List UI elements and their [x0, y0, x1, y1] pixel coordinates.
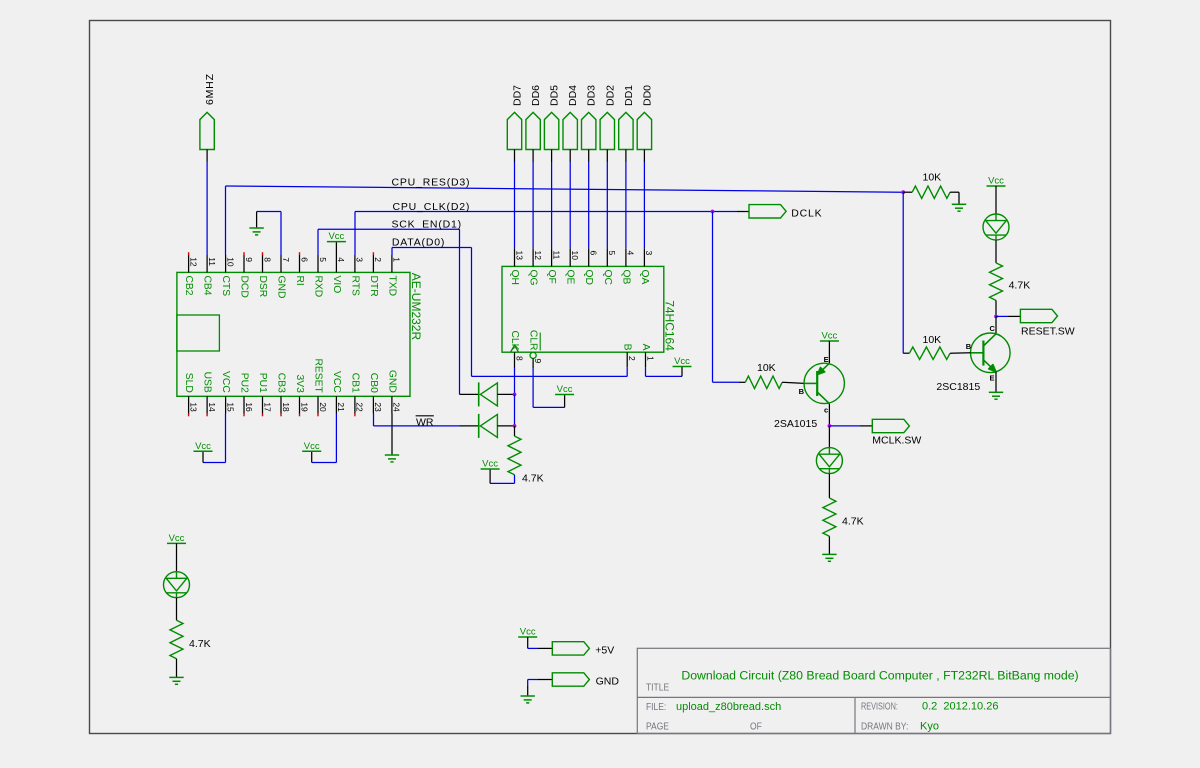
svg-text:4.7K: 4.7K — [189, 638, 211, 650]
svg-text:2: 2 — [373, 257, 383, 262]
svg-text:QC: QC — [602, 270, 613, 286]
svg-text:B: B — [966, 342, 972, 351]
diode D1 (SCK_EN to CLK node) — [479, 382, 498, 406]
svg-text:4.7K: 4.7K — [522, 472, 544, 484]
PAGE / OF labels — [646, 721, 762, 732]
svg-text:22: 22 — [355, 402, 365, 412]
wire base resistor to base — [950, 352, 970, 354]
wire DD2 flag lead — [606, 150, 608, 163]
AE-UM232R bottom pin 20 (RESET) — [313, 358, 328, 416]
wire DD2 to 74HC164 pin 5 — [606, 162, 608, 248]
svg-text:TXD: TXD — [386, 276, 397, 297]
svg-text:WR: WR — [416, 416, 434, 428]
svg-text:upload_z80bread.sch: upload_z80bread.sch — [676, 701, 781, 713]
power Vcc (VIO pin 4) — [327, 231, 346, 242]
svg-text:10: 10 — [570, 251, 580, 261]
svg-text:Vcc: Vcc — [988, 176, 1004, 187]
svg-text:DD5: DD5 — [549, 85, 561, 106]
wire diode D2 anode to CLK node — [497, 425, 514, 427]
svg-text:23: 23 — [373, 402, 383, 412]
net flag DD4 — [563, 112, 577, 149]
wire Vcc to LED (power) — [176, 543, 178, 571]
svg-text:4: 4 — [336, 257, 346, 262]
svg-text:B: B — [622, 344, 633, 351]
svg-text:DRAWN BY:: DRAWN BY: — [861, 721, 908, 732]
74HC164 pin 2 B — [622, 344, 637, 368]
svg-text:11: 11 — [551, 251, 561, 260]
AE-UM232R bottom pin 18 (CB3) — [276, 373, 291, 417]
svg-text:GND: GND — [386, 370, 397, 393]
svg-text:DD6: DD6 — [530, 85, 542, 106]
wire Vcc to LED (RESET) — [995, 186, 997, 214]
svg-text:GND: GND — [276, 276, 287, 299]
AE-UM232R bottom pin 13 (SLD) — [183, 373, 198, 417]
svg-text:20: 20 — [318, 402, 328, 412]
74HC164 top pin 12 (QG) — [528, 248, 543, 285]
svg-text:1: 1 — [645, 356, 655, 361]
page border frame — [90, 21, 1111, 734]
net flag +5V — [552, 642, 589, 655]
junction CPU_RES/10K — [901, 190, 905, 194]
wire DD5 to 74HC164 pin 11 — [551, 162, 553, 248]
net flag DCLK — [749, 205, 786, 218]
svg-text:CPU_CLK(D2): CPU_CLK(D2) — [393, 201, 471, 213]
svg-text:Vcc: Vcc — [520, 627, 536, 638]
svg-text:3V3: 3V3 — [294, 374, 305, 393]
net flag DD1 — [619, 112, 633, 149]
svg-text:Vcc: Vcc — [328, 231, 344, 242]
AE-UM232R top pin 8 (DSR) — [257, 252, 272, 297]
svg-text:CPU_RES(D3): CPU_RES(D3) — [392, 177, 471, 189]
svg-text:+5V: +5V — [595, 645, 614, 657]
svg-text:E: E — [824, 355, 829, 364]
svg-text:QG: QG — [528, 270, 539, 286]
svg-text:1: 1 — [392, 257, 402, 262]
svg-text:8: 8 — [514, 356, 524, 361]
svg-text:VCC: VCC — [331, 371, 342, 393]
diode D2 (WR to CLK node) — [479, 414, 498, 438]
REVISION label and value — [861, 700, 998, 712]
AE-UM232R top pin 5 (RXD) — [313, 255, 328, 297]
wire CPU_CLK from AE-UM232R pin 3 (RTS) up and right to DCLK junction — [355, 212, 713, 256]
svg-text:Vcc: Vcc — [482, 459, 498, 470]
wire DD3 to 74HC164 pin 6 — [588, 162, 590, 248]
svg-text:QE: QE — [565, 270, 576, 285]
AE-UM232R top pin 2 (DTR) — [368, 252, 383, 296]
svg-text:5: 5 — [318, 257, 328, 262]
wire Vcc to emitter (2SA1015) — [828, 341, 830, 363]
svg-text:RXD: RXD — [313, 276, 324, 298]
AE-UM232R bottom pin 22 (CB1) — [349, 373, 364, 417]
svg-text:QD: QD — [583, 270, 594, 285]
svg-text:QB: QB — [620, 270, 631, 285]
AE-UM232R top pin 10 (CTS) — [220, 255, 235, 296]
power Vcc (+5V source) — [518, 627, 537, 638]
wire junction to resistor 10K (CPU_RES) — [903, 191, 912, 193]
svg-text:RI: RI — [294, 276, 305, 286]
wire LED to resistor 4.7K (MCLK) — [828, 474, 830, 498]
wire DATA from AE-UM232R pin 1 (TXD) to 74HC164 pin 2 (B) — [392, 248, 627, 377]
wire DD6 to 74HC164 pin 12 — [532, 162, 534, 248]
wire 6MHz to AE-UM232R pin 11 (CB4) — [206, 162, 208, 256]
svg-text:16: 16 — [244, 402, 254, 412]
LED (power indicator) — [164, 572, 190, 598]
resistor 10K (CPU_RES termination) — [912, 186, 950, 198]
power Vcc (RESET LED) — [987, 176, 1006, 187]
wire DD3 flag lead — [588, 150, 590, 163]
svg-text:DD1: DD1 — [623, 85, 635, 106]
svg-text:10K: 10K — [923, 172, 942, 184]
DRAWN BY label and name — [861, 721, 939, 733]
AE-UM232R top pin 7 (GND) — [276, 255, 291, 298]
svg-text:DATA(D0): DATA(D0) — [392, 237, 445, 249]
svg-text:10K: 10K — [757, 362, 776, 374]
svg-text:14: 14 — [207, 402, 217, 412]
svg-text:15: 15 — [225, 402, 235, 412]
wire DCLK junction down to base resistor (2SA1015) — [713, 212, 746, 383]
svg-text:8: 8 — [262, 257, 272, 262]
wire RESET node to transistor collector — [995, 316, 997, 333]
svg-text:VIO: VIO — [331, 276, 342, 294]
ground (AE-UM232R pin 24) — [385, 455, 399, 462]
svg-text:QF: QF — [546, 270, 557, 284]
wire Vcc to +5V flag — [528, 637, 553, 648]
svg-text:6: 6 — [589, 251, 599, 256]
svg-text:7: 7 — [281, 257, 291, 262]
net flag GND — [552, 673, 589, 686]
AE-UM232R bottom pin 21 (VCC) — [331, 371, 346, 413]
svg-text:RESET: RESET — [313, 358, 324, 393]
transistor Q2 2SA1015 (PNP) — [799, 355, 845, 415]
wire WR from AE-UM232R pin 23 (CB0) to diode D2 cathode — [374, 414, 479, 426]
wire AE-UM232R pin 15 (VCC) to Vcc — [203, 414, 226, 463]
wire junction to DCLK flag — [713, 211, 750, 213]
wire LED to resistor 4.7K (power) — [176, 598, 178, 620]
AE-UM232R bottom pin 16 (PU2) — [239, 373, 254, 417]
svg-text:RESET.SW: RESET.SW — [1021, 325, 1075, 337]
svg-text:Vcc: Vcc — [821, 331, 837, 342]
svg-text:CLK: CLK — [509, 330, 520, 350]
junction RESET node — [994, 315, 998, 319]
svg-text:CB4: CB4 — [202, 276, 213, 296]
power Vcc (pin 15) — [194, 441, 213, 452]
svg-text:DD2: DD2 — [604, 85, 616, 106]
svg-text:Kyo: Kyo — [920, 721, 939, 733]
svg-text:DTR: DTR — [368, 276, 379, 297]
AE-UM232R bottom pin 17 (PU1) — [257, 373, 272, 417]
wire RESET node to RESET.SW flag — [996, 315, 1020, 317]
svg-text:B: B — [799, 387, 805, 396]
svg-text:TITLE: TITLE — [646, 682, 669, 693]
svg-text:DCD: DCD — [239, 276, 250, 298]
wire DD1 flag lead — [625, 150, 627, 163]
wire resistor to RESET node — [995, 300, 997, 316]
wire between diode nodes — [514, 394, 516, 426]
svg-text:CB0: CB0 — [368, 373, 379, 393]
power Vcc (pin 21) — [302, 441, 321, 452]
net flag DD7 — [507, 112, 521, 149]
wire to resistor 10K (2SC1815 base) — [903, 352, 909, 354]
AE-UM232R bottom pin 23 (CB0) — [368, 373, 383, 414]
AE-UM232R top pin 1 (TXD) — [386, 255, 401, 296]
resistor 4.7K (CLK pull-up) — [508, 436, 521, 475]
svg-text:CLR: CLR — [528, 330, 539, 351]
svg-text:12: 12 — [533, 251, 543, 261]
resistor 4.7K (RESET LED) — [990, 263, 1003, 301]
power Vcc (A pin 1) — [673, 356, 692, 367]
svg-text:Vcc: Vcc — [674, 356, 690, 367]
ground (AE-UM232R pin 7) — [249, 228, 263, 235]
svg-text:DSR: DSR — [257, 276, 268, 298]
wire DD5 flag lead — [551, 150, 553, 163]
AE-UM232R top pin 11 (CB4) — [202, 255, 217, 296]
74HC164 top pin 5 (QC) — [602, 248, 617, 285]
74HC164 pin 1 A — [640, 344, 655, 368]
svg-text:2SA1015: 2SA1015 — [774, 418, 817, 430]
wire resistor to ground (MCLK) — [828, 536, 830, 554]
svg-text:17: 17 — [262, 402, 272, 412]
wire node to resistor 4.7K — [514, 426, 516, 436]
resistor 4.7K (power LED) — [170, 620, 183, 658]
wire resistor 4.7K to Vcc — [490, 469, 514, 483]
resistor 10K (2SA1015 base) — [745, 376, 782, 388]
wire CPU_RES from AE-UM232R pin 10 (CTS) up — [225, 186, 227, 255]
ground (GND flag) — [521, 696, 535, 703]
wire resistor to ground (power LED) — [176, 659, 178, 678]
svg-text:CB3: CB3 — [276, 373, 287, 393]
power Vcc (CLR pin 9) — [555, 384, 574, 395]
svg-text:GND: GND — [596, 675, 620, 687]
74HC164 top pin 11 (QF) — [546, 248, 561, 284]
resistor 10K (2SC1815 base) — [909, 347, 950, 359]
net flag DD2 — [600, 112, 614, 149]
net label WR (overline) — [416, 416, 434, 429]
74HC164 pin 9 CLR (active low, bubble + overline) — [528, 330, 543, 368]
wire LED to resistor 4.7K (RESET) — [995, 240, 997, 263]
svg-text:RTS: RTS — [349, 276, 360, 297]
svg-text:QA: QA — [639, 270, 650, 285]
wire collector to MCLK node — [828, 404, 830, 426]
svg-text:VCC: VCC — [220, 371, 231, 393]
74HC164 pin 8 CLK with clock-input triangle — [509, 330, 524, 368]
wire SCK_EN from AE-UM232R pin 5 (RXD) to diode D1 cathode — [318, 229, 479, 394]
svg-text:AE-UM232R: AE-UM232R — [409, 273, 423, 341]
wire CPU_RES horizontal (slanted) to right — [226, 186, 904, 192]
power Vcc (power LED) — [167, 533, 186, 544]
svg-text:CB2: CB2 — [183, 276, 194, 296]
wire DD7 flag lead — [514, 150, 516, 163]
wire AE-UM232R pin 24 (GND) to ground — [391, 414, 393, 456]
svg-text:4.7K: 4.7K — [1009, 280, 1031, 292]
svg-text:6MHZ: 6MHZ — [204, 73, 216, 105]
resistor 4.7K (MCLK LED) — [823, 498, 836, 536]
svg-text:SCK_EN(D1): SCK_EN(D1) — [392, 218, 462, 230]
junction CLK/D2 node — [513, 424, 517, 428]
svg-text:18: 18 — [281, 402, 291, 412]
svg-text:USB: USB — [202, 372, 213, 393]
svg-text:24: 24 — [392, 402, 402, 412]
svg-text:DCLK: DCLK — [791, 208, 822, 220]
svg-text:E: E — [990, 373, 995, 382]
svg-text:Vcc: Vcc — [557, 384, 573, 395]
net flag RESET.SW — [1020, 309, 1057, 322]
FILE label and filename — [646, 701, 781, 713]
svg-text:Vcc: Vcc — [304, 441, 320, 452]
svg-text:PU1: PU1 — [257, 373, 268, 393]
svg-text:21: 21 — [336, 402, 346, 412]
74HC164 top pin 3 (QA) — [639, 248, 654, 284]
74HC164 top pin 4 (QB) — [620, 248, 635, 284]
AE-UM232R bottom pin 19 (3V3) — [294, 374, 309, 416]
svg-text:5: 5 — [607, 251, 617, 256]
svg-text:PU2: PU2 — [239, 373, 250, 393]
svg-text:Download Circuit (Z80 Bread Bo: Download Circuit (Z80 Bread Board Comput… — [681, 668, 1078, 682]
ground (CPU_RES 10K) — [952, 204, 966, 211]
wire resistor 10K to ground — [950, 192, 959, 204]
wire DD0 to 74HC164 pin 3 — [643, 162, 645, 248]
svg-text:2: 2 — [627, 356, 637, 361]
net flag DD5 — [544, 112, 558, 149]
svg-text:REVISION:: REVISION: — [861, 700, 898, 711]
svg-text:11: 11 — [207, 257, 217, 266]
wire DD1 to 74HC164 pin 4 — [625, 162, 627, 248]
wire 74HC164 pin 9 CLR to Vcc — [533, 368, 565, 407]
transistor Q1 2SC1815 (NPN) — [966, 324, 1010, 382]
svg-text:2SC1815: 2SC1815 — [936, 381, 980, 393]
wire MCLK node to LED — [828, 426, 830, 448]
AE-UM232R top pin 9 (DCD) — [239, 252, 254, 298]
wire AE-UM232R pin 7 (GND) to ground — [257, 212, 281, 256]
svg-text:DD3: DD3 — [586, 85, 598, 106]
wire AE-UM232R pin 21 (VCC) to Vcc — [312, 414, 337, 463]
svg-text:9: 9 — [244, 257, 254, 262]
svg-text:6: 6 — [299, 257, 309, 262]
AE-UM232R bottom pin 24 (GND) — [386, 370, 401, 414]
svg-text:SLD: SLD — [183, 373, 194, 393]
svg-text:PAGE: PAGE — [646, 721, 669, 732]
svg-text:CTS: CTS — [220, 276, 231, 297]
net flag DD3 — [582, 112, 596, 149]
svg-text:10K: 10K — [923, 334, 942, 346]
net flag DD6 — [526, 112, 540, 149]
74HC164 top pin 10 (QE) — [565, 248, 580, 284]
wire DD7 to 74HC164 pin 13 — [514, 162, 516, 248]
svg-text:13: 13 — [514, 251, 524, 261]
AE-UM232R bottom pin 15 (VCC) — [220, 371, 235, 413]
wire DD4 to 74HC164 pin 10 — [569, 162, 571, 248]
AE-UM232R bottom pin 14 (USB) — [202, 372, 217, 417]
svg-text:Vcc: Vcc — [195, 441, 211, 452]
svg-text:10: 10 — [225, 257, 235, 267]
net flag 6MHz — [200, 112, 214, 149]
title block frame — [637, 648, 1110, 733]
LED (MCLK indicator) — [816, 448, 842, 474]
IC U2 74HC164 body — [502, 266, 664, 352]
wire base resistor to base (2SA1015) — [782, 382, 804, 383]
wire 74HC164 pin 8 CLK down to diode node — [514, 368, 516, 394]
net flag MCLK.SW — [872, 419, 909, 432]
power Vcc (2SA1015 emitter) — [820, 331, 839, 342]
wire DD6 flag lead — [532, 150, 534, 163]
junction CPU_CLK/DCLK — [711, 210, 715, 214]
svg-text:9: 9 — [533, 359, 543, 364]
AE-UM232R top pin 3 (RTS) — [349, 255, 364, 296]
svg-text:QH: QH — [509, 270, 520, 285]
svg-text:3: 3 — [355, 257, 365, 262]
wire diode D1 anode to CLK node — [497, 393, 514, 395]
wire DD4 flag lead — [569, 150, 571, 163]
ground (MCLK LED) — [822, 554, 836, 561]
wire 6MHz flag lead — [206, 150, 208, 162]
AE-UM232R top pin 6 (RI) — [294, 252, 309, 286]
power Vcc (CLK pull-up) — [481, 459, 500, 470]
svg-text:4.7K: 4.7K — [842, 515, 864, 527]
wire emitter to ground (2SC1815) — [995, 372, 997, 393]
AE-UM232R top pin 12 (CB2) — [183, 252, 198, 296]
svg-text:12: 12 — [188, 257, 198, 267]
svg-text:74HC164: 74HC164 — [662, 300, 676, 351]
ground (2SC1815 emitter) — [989, 392, 1003, 399]
net flag DD0 — [637, 112, 651, 149]
svg-text:DD0: DD0 — [641, 85, 653, 106]
svg-text:13: 13 — [188, 402, 198, 412]
svg-text:0.2 2012.10.26: 0.2 2012.10.26 — [922, 701, 998, 713]
svg-text:3: 3 — [644, 251, 654, 256]
svg-text:c: c — [824, 405, 828, 414]
svg-text:4: 4 — [626, 251, 636, 256]
wire ground to GND flag — [528, 680, 553, 697]
svg-text:DD7: DD7 — [512, 85, 524, 106]
svg-text:OF: OF — [750, 721, 762, 732]
wire CPU_RES junction down to base resistor — [902, 192, 904, 353]
wire MCLK node to MCLK.SW flag — [829, 425, 872, 427]
wire AE-UM232R pin 4 (VIO) to Vcc — [335, 242, 337, 255]
junction MCLK node — [828, 424, 832, 428]
svg-text:19: 19 — [299, 402, 309, 412]
AE-UM232R top pin 4 (VIO) — [331, 255, 346, 293]
junction CLK/D1 node — [513, 393, 517, 397]
svg-text:CB1: CB1 — [349, 373, 360, 393]
svg-text:DD4: DD4 — [567, 85, 579, 106]
svg-text:A: A — [640, 344, 651, 351]
wire 74HC164 pin 1 A to Vcc — [646, 367, 683, 377]
IC U1 AE-UM232R body — [177, 272, 410, 396]
svg-text:MCLK.SW: MCLK.SW — [872, 435, 921, 447]
svg-text:FILE:: FILE: — [646, 701, 666, 712]
ground (power LED) — [169, 677, 183, 684]
svg-text:C: C — [990, 324, 996, 333]
wire DD0 flag lead — [643, 150, 645, 163]
74HC164 top pin 13 (QH) — [509, 248, 524, 285]
svg-text:Vcc: Vcc — [169, 533, 185, 544]
LED (RESET indicator) — [983, 214, 1009, 240]
74HC164 top pin 6 (QD) — [583, 248, 598, 285]
